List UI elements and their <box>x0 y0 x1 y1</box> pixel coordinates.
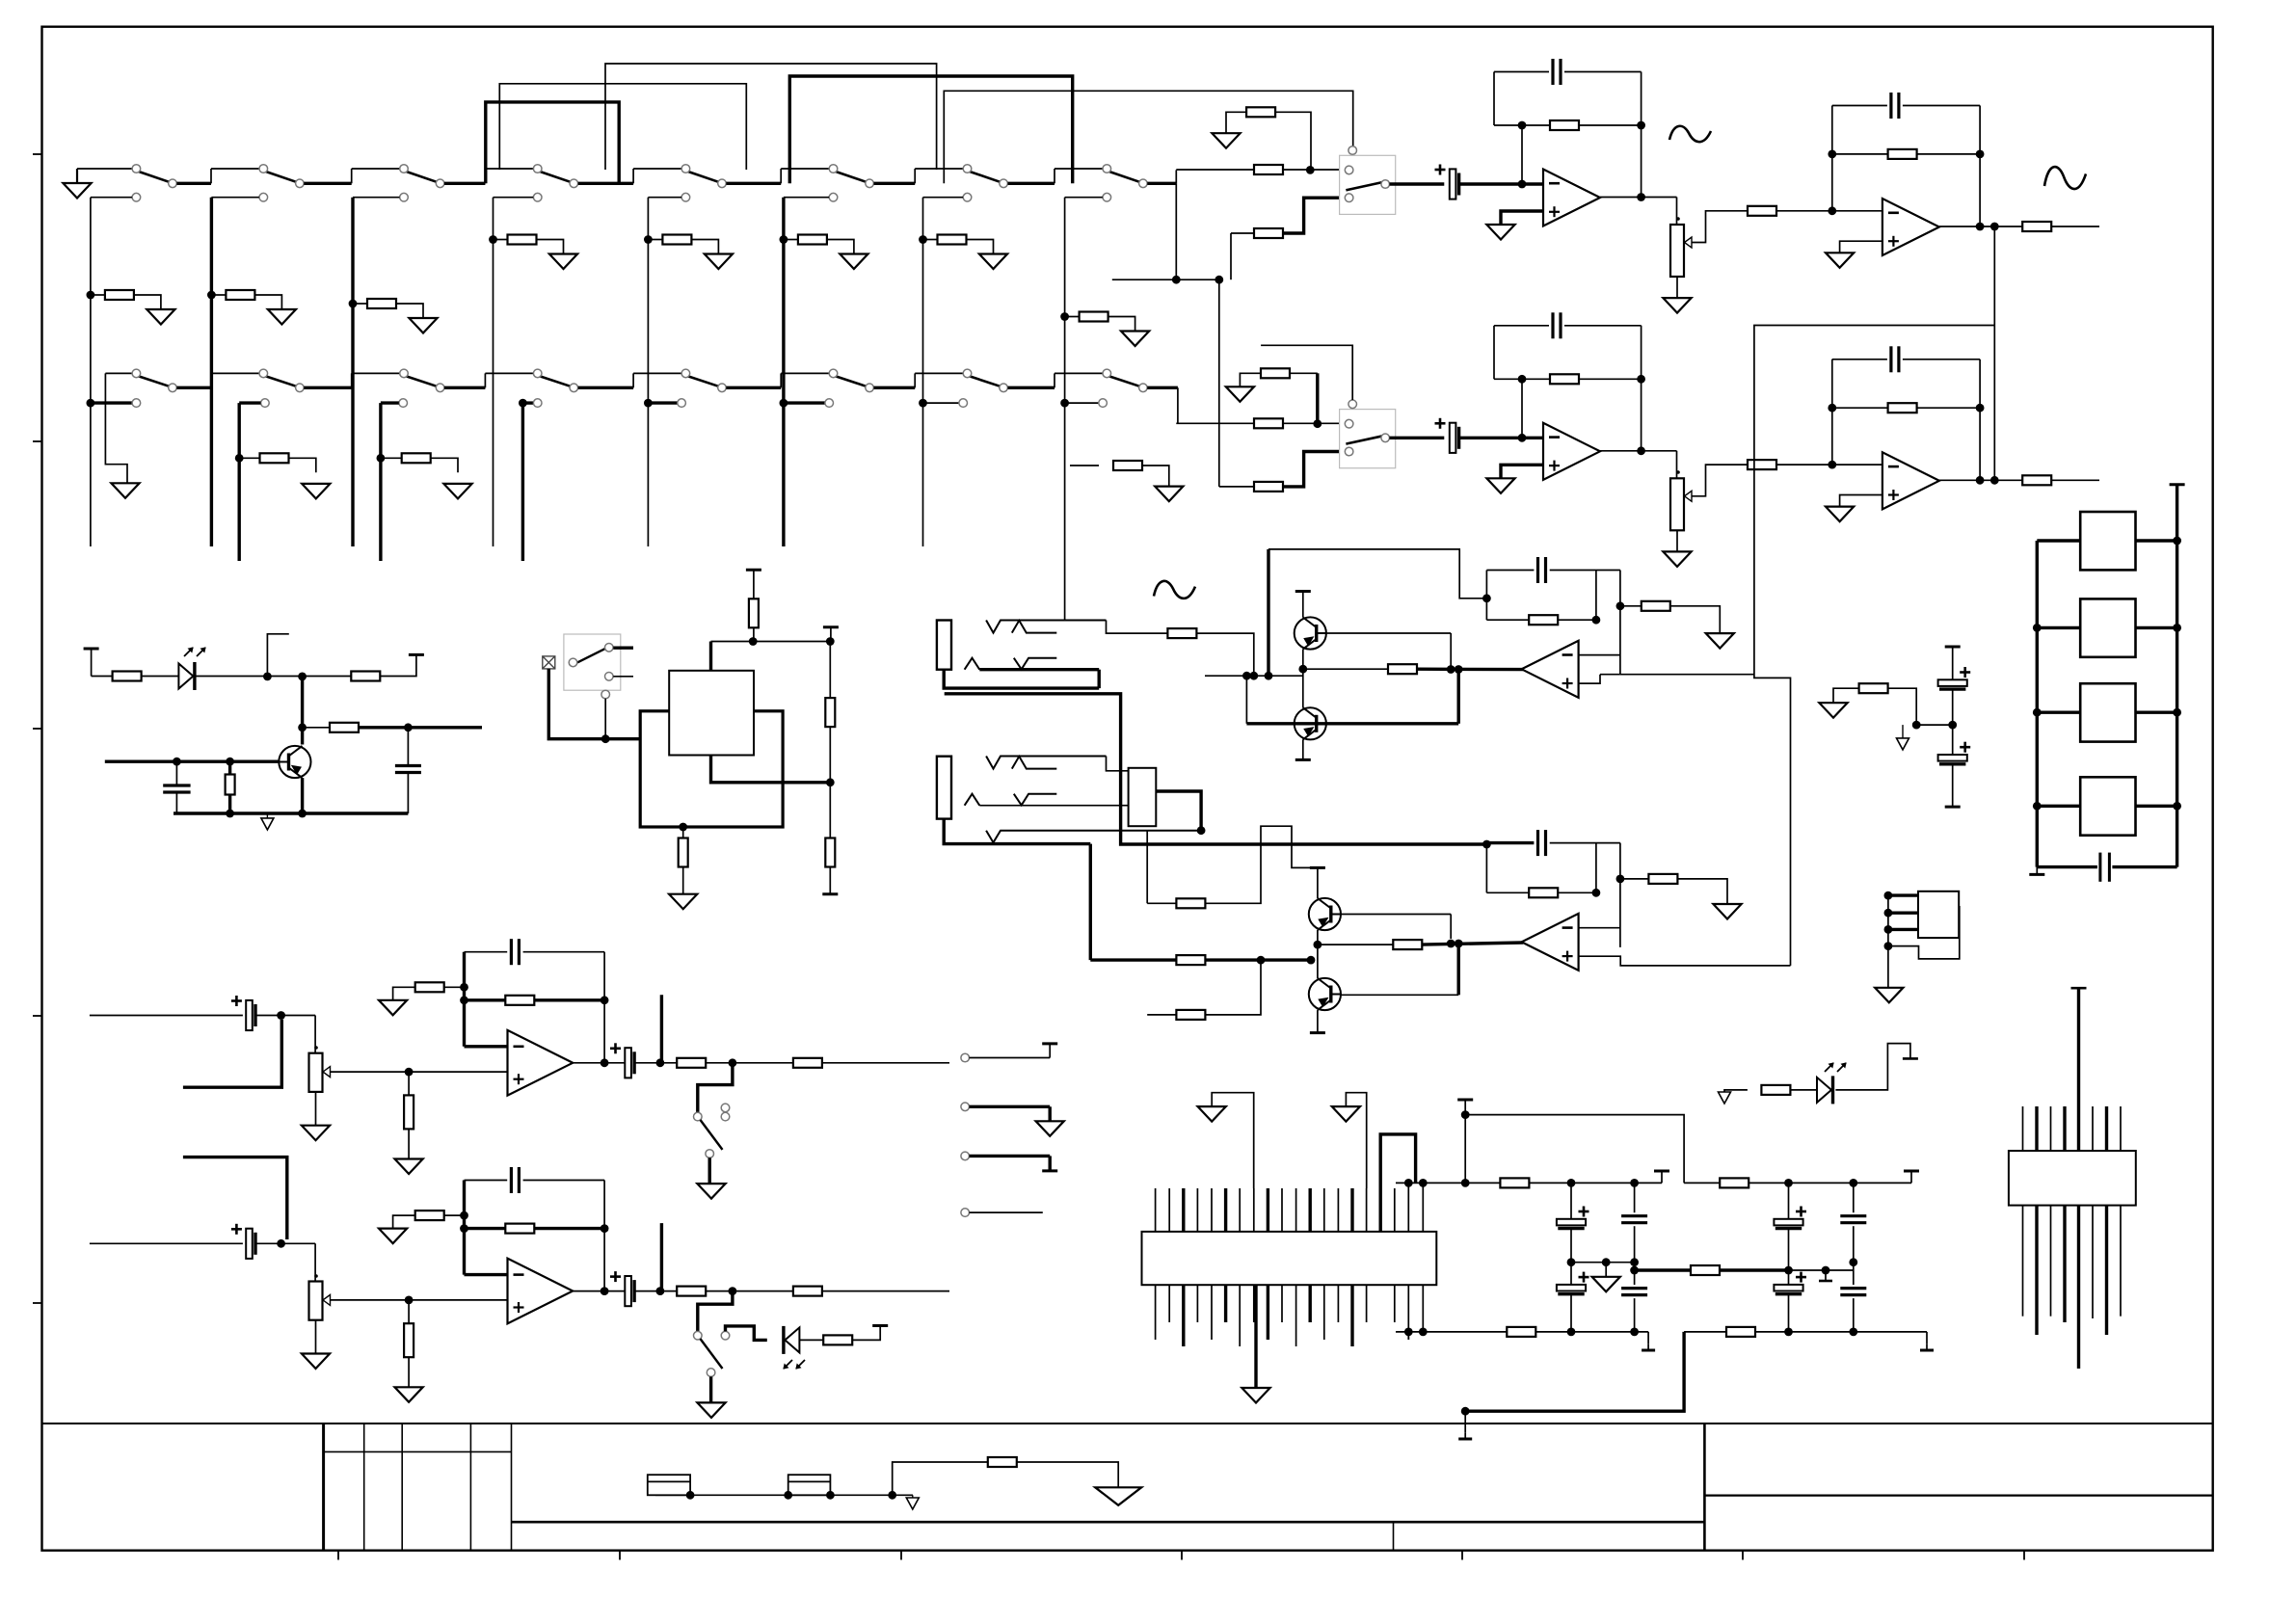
terminal pin 1 <box>961 1053 970 1062</box>
wire C after cap <box>635 1062 678 1064</box>
switch blade mid <box>577 649 605 662</box>
ground row1 col5 <box>705 254 733 270</box>
wire junction to R23 <box>303 676 352 678</box>
wire mix A minus input <box>1579 654 1620 656</box>
ground D pot <box>302 1354 330 1370</box>
ground B pot <box>1663 551 1691 567</box>
resistor R22 collector <box>298 723 307 732</box>
title block small grid verticals <box>322 1423 325 1551</box>
wire mid common down <box>548 669 640 739</box>
capacitor CA3 feedback2 <box>1889 93 1892 119</box>
ground A opamp + <box>1486 225 1514 240</box>
wire D output right <box>822 1290 949 1292</box>
resistor RA1 input <box>1254 165 1283 174</box>
wire Q2 base to bus <box>1326 722 1458 725</box>
resistor RCg bias with ground <box>444 986 465 988</box>
wire C fb left vertical <box>463 952 466 1047</box>
wire row2 chain after col8 <box>1147 386 1178 389</box>
wire mid square to node <box>711 756 831 783</box>
jack J1 row2 contact B <box>1014 658 1057 670</box>
capacitor C20 <box>395 764 421 767</box>
wire row2 chain col6-col7 <box>874 386 916 389</box>
capacitor C72 ceramic <box>1634 1183 1636 1212</box>
wire A opamp2 + ground <box>1840 241 1882 253</box>
wire right top cont <box>1749 1182 1911 1184</box>
wire A opamp + input to ground <box>1501 211 1543 225</box>
wire mix A plus link <box>1579 675 1600 683</box>
small ground arrow fuse rail <box>912 1495 914 1498</box>
resistor R1b col2 to ground <box>207 291 216 300</box>
wire J1 tip step <box>1107 621 1168 634</box>
op-amp UBA <box>1543 423 1600 480</box>
resistor R74 right bottom <box>1726 1327 1755 1337</box>
potentiometer PB <box>1670 478 1684 530</box>
switch S2f row2 col6 <box>836 376 867 386</box>
resistor R50 with ground <box>1833 688 1859 703</box>
wire mix B fb left link <box>1485 843 1487 893</box>
fuse F2 <box>788 1475 831 1495</box>
switch S1c row1 col3 <box>407 172 438 182</box>
wire B resistor to switch <box>1283 422 1341 424</box>
switch S2c row2 col3 <box>407 376 438 386</box>
wire A pot bottom to ground <box>1676 277 1678 298</box>
switch SWB mute <box>698 1291 733 1332</box>
wire row1 chain col7-col8 <box>1008 182 1055 185</box>
capacitor C75 electrolytic right <box>1788 1270 1790 1285</box>
wire bus loop U4 thick <box>486 102 619 183</box>
switch S1b row1 col2 <box>266 172 297 182</box>
op-amp U6 mix B (points left) <box>1522 914 1579 971</box>
switch SWB lower contact <box>707 1369 715 1377</box>
wire ch2 pullup leads <box>1240 373 1261 386</box>
ground row1 col7 <box>979 254 1007 270</box>
jack J2 tip contact <box>986 757 1106 769</box>
switch S2d row2 col4 <box>540 376 571 386</box>
no-connect X mid switch <box>543 656 555 669</box>
node tap row2 col4 <box>519 399 527 408</box>
node tap row1 col2 <box>259 193 268 201</box>
capacitor C74 electrolytic right <box>1788 1183 1790 1219</box>
capacitor CA2 feedback <box>1551 59 1554 85</box>
wire power return bottom <box>1465 1332 1684 1411</box>
op-amp U5 mix A (points left) <box>1522 641 1579 698</box>
wire A feedback left vertical <box>1493 72 1495 126</box>
resistor R40 tip <box>1167 628 1196 638</box>
square block N2 <box>2037 626 2080 629</box>
ground mid block <box>669 894 697 910</box>
wire vertical bus col7 <box>922 198 924 546</box>
switch box A input select <box>1340 155 1396 214</box>
resistor R1d col4 to ground <box>489 235 497 244</box>
node tap row1 col4 <box>533 193 542 201</box>
resistor R1c col3 to ground <box>349 300 358 308</box>
resistor RA4 feedback <box>1550 120 1579 130</box>
terminal T-bar cap bottom <box>1945 806 1961 809</box>
wire D wiper to opamp <box>331 1299 508 1301</box>
wire R40 to node <box>1196 633 1253 676</box>
ground row1 col2 <box>268 309 296 325</box>
switch S1f row1 col6 <box>836 172 867 182</box>
resistor R47 mix B feedback <box>1529 888 1558 897</box>
wire vertical bus col2 <box>210 198 213 546</box>
ground A pot <box>1663 298 1691 313</box>
connector J10 power pins <box>1407 1183 1409 1232</box>
terminal T-bar Q4 emitter <box>1317 1010 1319 1033</box>
wire D fb res rail <box>465 1227 505 1230</box>
connector J10 pins bottom <box>1155 1285 1157 1340</box>
wire mid switch stub top <box>613 647 633 650</box>
ground D Rg <box>379 1229 407 1244</box>
wire Q2 base left stub <box>1245 676 1247 724</box>
jack J2 row2 contact A <box>965 794 980 806</box>
wire D stub up <box>660 1223 663 1291</box>
wire D pot feed <box>314 1243 316 1281</box>
node B output <box>1637 446 1645 455</box>
wire right mid node <box>1789 1269 1854 1271</box>
ground title circuit <box>1095 1487 1141 1505</box>
switch box relay mid <box>564 634 621 690</box>
wire mid top rail <box>711 641 831 643</box>
ground C Rg <box>379 1000 407 1016</box>
op-amp UAA <box>1543 170 1600 226</box>
wire row2 chain col5-col6 <box>726 386 781 389</box>
connector J11 pins top <box>2022 1106 2024 1151</box>
resistor R24 base to ground <box>228 761 231 775</box>
resistor R71 mid link <box>1691 1265 1720 1275</box>
wire bus feed to ch1 switch <box>944 91 1352 183</box>
wire J2 tip step to block <box>1107 757 1129 771</box>
wire C input line <box>90 1015 243 1017</box>
wire Q1 base <box>1326 632 1451 634</box>
jack J1 body <box>937 621 951 670</box>
resistor R49 lower <box>1147 1014 1176 1016</box>
wire A fb2 left vertical <box>1831 106 1833 211</box>
wire SWB NC to LED <box>726 1326 767 1341</box>
wire R46 to opamp B <box>1422 943 1523 945</box>
wire vertical bus col5 <box>647 198 649 546</box>
resistor RB7 output <box>2022 475 2051 485</box>
wire row2 vertical col4 <box>521 403 524 561</box>
capacitor CDf feedback <box>510 1167 513 1193</box>
jack J1 tip contact <box>986 621 1106 633</box>
node tap row2 col8 <box>1060 399 1069 408</box>
wire network bottom rail <box>2037 865 2097 868</box>
small ground LED circuit <box>266 813 268 818</box>
node A output2 <box>1976 223 1985 231</box>
small ground arrow cap node <box>1902 725 1904 738</box>
resistor R31 vertical right <box>829 642 831 699</box>
wire D fb cap rail <box>465 1180 508 1182</box>
wire row1 start <box>77 168 132 170</box>
wire bypass line <box>1465 1100 1684 1183</box>
capacitor C50 electrolytic upper <box>1952 647 1954 680</box>
wire D inv input <box>465 1273 508 1276</box>
resistor RCf feedback <box>505 996 534 1005</box>
wire bus loop U2 thin <box>499 84 746 170</box>
wire R23 to T-bar <box>380 654 416 676</box>
capacitor C71 electrolytic <box>1570 1263 1572 1285</box>
resistor R1g col7 to ground <box>919 235 927 244</box>
wire Q3 base <box>1341 914 1451 916</box>
wire Q3-Q4 node <box>1317 930 1319 978</box>
LED D1 arrows <box>184 648 193 656</box>
wire mix B input down link <box>1456 944 1459 995</box>
terminal T-bar Q2 emitter <box>1302 739 1304 759</box>
wire R49 link up <box>1206 960 1261 1015</box>
wire mix A fb cap rail <box>1486 570 1534 572</box>
wire B pot wiper out <box>1692 465 1748 496</box>
resistor RA7 output <box>2022 222 2051 231</box>
wire vertical bus col3 <box>351 198 354 546</box>
node tap row1 col1 <box>132 193 141 201</box>
switch S1a row1 col1 <box>139 172 170 182</box>
node tap row2 col5 <box>644 399 653 408</box>
wire A fb2 resistor rail <box>1832 153 1888 155</box>
ground C pot <box>302 1126 330 1141</box>
ground ch2 pullup <box>1226 386 1254 402</box>
wire A resistor to switch <box>1283 169 1341 171</box>
ground B opamp + <box>1486 478 1514 493</box>
resistor RA2 lower input <box>1254 228 1283 238</box>
title block top line <box>42 1423 2213 1424</box>
terminal T-bar Q3 collector <box>1310 866 1325 869</box>
node A output <box>1637 193 1645 201</box>
big square block B (thick) <box>640 711 783 827</box>
wire A feedback right vertical <box>1641 72 1642 198</box>
resistor RB1 input <box>1254 418 1283 428</box>
terminal T-bar bypass <box>1457 1099 1473 1102</box>
op-amp UD <box>508 1259 574 1324</box>
resistor R33 vertical square bottom <box>679 823 687 832</box>
ground connector bottom pin <box>1254 1285 1257 1388</box>
wire junction down to transistor <box>301 677 304 745</box>
title block left horizontal line <box>512 1521 1705 1524</box>
wire LED circuit top rail <box>92 676 113 678</box>
switch B select blade <box>1346 436 1382 443</box>
resistor RA5 to output amp <box>1748 206 1776 216</box>
node B output2 <box>1976 476 1985 485</box>
wire bus loop U1 thin <box>605 64 937 170</box>
interconnect block X1 <box>1129 768 1157 826</box>
resistor R75 LED power <box>1761 1085 1790 1095</box>
wire C fb cap rail <box>465 951 508 953</box>
wire right bottom cont <box>1755 1331 1927 1333</box>
wire B fb2 resistor rail <box>1832 407 1888 409</box>
terminal T-bar right top <box>1910 1171 1912 1183</box>
ground power mid <box>1605 1263 1607 1277</box>
wire D cap out <box>255 1242 315 1244</box>
wire mid switch stub mid <box>613 676 633 678</box>
ground row1 col3 <box>409 318 437 333</box>
resistor RB5 to output amp <box>1748 460 1776 469</box>
title block right divider <box>1703 1423 1706 1551</box>
wire ch1 pullup leads <box>1226 112 1246 133</box>
wire power mid link right <box>1635 1268 1691 1271</box>
wire vertical bus col6 <box>782 198 785 546</box>
wire J1 vertical link <box>1097 670 1100 688</box>
wire J2 row2 to block <box>979 805 1128 807</box>
wire ch2 top line <box>1261 345 1352 400</box>
wire mix A input resistor rail <box>1303 668 1388 670</box>
wire row2 chain col3-col4 <box>444 386 485 389</box>
wire C pot to ground <box>315 1092 317 1126</box>
resistor R72 bottom rail <box>1507 1327 1535 1337</box>
wire mid link to right <box>1720 1268 1789 1271</box>
wire power top rail <box>1396 1182 1500 1184</box>
resistor RCa to ground <box>408 1072 410 1096</box>
wire J1 sleeve <box>944 670 1099 688</box>
resistor R43 mix A input <box>1388 664 1417 674</box>
wire row2 chain col4-col5 <box>578 386 633 389</box>
ground input row1 left <box>76 169 78 183</box>
connector J10 pins top <box>1155 1188 1157 1232</box>
node B select terminals <box>1348 400 1357 409</box>
frame tick marks left edge <box>33 153 42 155</box>
wire LED to resistor <box>799 1339 823 1341</box>
wire row1 chain col3-col4 <box>444 182 485 185</box>
ground ch1 pullup <box>1212 133 1240 148</box>
wire LED power <box>1724 1090 1748 1092</box>
connector J10 body <box>1142 1232 1437 1285</box>
connector J11 pins bottom <box>2022 1206 2024 1317</box>
LED D3 power <box>1817 1078 1831 1103</box>
wire J2 sleeve <box>944 819 1090 844</box>
wire C output right <box>822 1062 949 1064</box>
wire B fb2 left vertical <box>1831 359 1833 465</box>
wire bottom rail LED circuit <box>174 811 408 814</box>
wire row2 chain col7-col8 <box>1008 386 1055 389</box>
wire B feedback tap vertical <box>1518 375 1527 384</box>
capacitor C41 mix B feedback <box>1536 830 1539 856</box>
wire row2 vertical col3 <box>379 403 382 561</box>
wire mix A fb res rail <box>1486 619 1529 621</box>
resistor R42 <box>1176 955 1205 965</box>
transistor Q20 <box>279 746 310 778</box>
wire power right bottom rail <box>1684 1331 1726 1333</box>
wire X2 bus vertical <box>1887 891 1889 988</box>
wire D input line <box>90 1242 243 1244</box>
capacitor CCf feedback <box>510 939 513 965</box>
ground A opamp2 + <box>1826 253 1854 268</box>
node ch2 input <box>1313 419 1322 428</box>
wire mix B fb cap rail <box>1486 841 1534 844</box>
wire power bottom rail <box>1396 1331 1507 1333</box>
capacitor C52 network <box>2098 853 2101 882</box>
wire mix A input down link <box>1456 670 1459 724</box>
wire mix B fb right vertical <box>1595 843 1597 893</box>
node tap row2 col6 <box>780 399 788 408</box>
small ground arrow LED power <box>1719 1092 1731 1104</box>
resistor RB4 feedback <box>1550 374 1579 384</box>
wire A select common out <box>1390 182 1445 185</box>
square block N4 <box>2037 805 2080 808</box>
switch S1e row1 col5 <box>688 172 719 182</box>
wire X2 stubs to bus <box>1888 893 1918 896</box>
wire to LED <box>142 676 180 678</box>
wire B to opamp2 <box>1776 464 1882 466</box>
jack J2 row3 contact <box>986 831 1201 843</box>
capacitor C73 ceramic <box>1634 1263 1636 1285</box>
wire X2 staircase link <box>1888 906 1960 959</box>
switch S2a row2 col1 <box>139 376 170 386</box>
node mid switch terminals <box>569 658 577 667</box>
wire power rail top feed <box>1380 1134 1415 1232</box>
capacitor C77 ceramic right <box>1853 1263 1855 1285</box>
wire B feedback top rail <box>1494 325 1549 327</box>
terminal T-bar right bottom <box>1926 1332 1928 1344</box>
ground row2 col2 <box>302 484 330 499</box>
terminal T-bar bottom rail <box>1647 1332 1649 1344</box>
wire B lower input <box>1219 486 1254 488</box>
terminal T-bar network bottom left <box>2036 867 2038 875</box>
resistor R44 mix A feedback <box>1529 615 1558 625</box>
capacitor CB1 electrolytic input <box>1450 423 1456 453</box>
wire D output node <box>706 1290 793 1292</box>
op-amp UAB output <box>1882 199 1939 255</box>
ground row1 col4 <box>549 254 577 270</box>
fuse F1 <box>648 1475 690 1495</box>
wire row2 left entry <box>105 372 132 374</box>
connector J11 body <box>2009 1151 2136 1206</box>
wire LED to junction <box>197 676 303 678</box>
resistor R60 LED <box>823 1335 852 1344</box>
resistor R48 mix B to ground <box>1620 878 1649 880</box>
resistor RCp output2 <box>793 1058 822 1068</box>
capacitor CB2 feedback <box>1551 312 1554 338</box>
capacitor C76 ceramic right <box>1853 1183 1855 1212</box>
node tap row2 col7 <box>919 399 927 408</box>
resistor RA6 feedback2 <box>1888 149 1917 159</box>
wire row1 chain col2-col3 <box>304 182 351 185</box>
wire A feedback resistor rail <box>1494 124 1551 126</box>
wire mix A right vertical <box>1619 571 1621 675</box>
transistor Q1 <box>1295 617 1326 649</box>
resistor RCo output <box>677 1058 706 1068</box>
wire B opamp2 + ground <box>1840 495 1882 507</box>
jack J2 ring contact <box>1012 757 1057 769</box>
op-amp UBB output <box>1882 452 1939 509</box>
wire row2 chain col1-col2 <box>176 386 211 389</box>
wire long pin connector right <box>2071 987 2087 990</box>
ground D Ra <box>395 1387 423 1402</box>
jack J1 row2 contact A <box>965 658 980 670</box>
wire row2 col1 ground stub <box>105 373 127 483</box>
wire mix A output route up <box>1620 674 1754 676</box>
resistor R1a col1 to ground <box>87 291 95 300</box>
wire mix B input rail <box>1090 958 1176 961</box>
wire mid bottom circle down <box>604 699 606 739</box>
wire SWB to ground <box>709 1376 712 1402</box>
ground connector top 2 <box>1332 1106 1360 1122</box>
wire A output to pot <box>1676 198 1678 226</box>
capacitor CB3 feedback2 <box>1889 346 1892 372</box>
ground row2 col1 <box>111 483 139 498</box>
node tap row1 col5 <box>681 193 690 201</box>
capacitor CA1 electrolytic input <box>1450 169 1456 199</box>
wire X1 right stub 1 <box>1156 791 1201 831</box>
title block small grid horizontal <box>324 1450 512 1452</box>
switch S2e row2 col5 <box>688 376 719 386</box>
wire C stub up <box>660 995 663 1063</box>
ground R50 <box>1819 703 1847 718</box>
wire D fb right vertical <box>603 1181 605 1291</box>
ground mix A resistor <box>1706 633 1734 649</box>
potentiometer PC <box>309 1053 323 1092</box>
sine icon ch1 <box>1669 126 1711 142</box>
square block N1 <box>2037 539 2080 542</box>
square block N3 <box>2037 711 2080 714</box>
node D output <box>601 1287 609 1295</box>
